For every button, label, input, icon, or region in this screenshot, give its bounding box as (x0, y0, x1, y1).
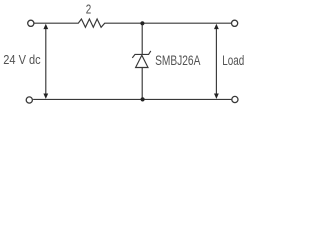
svg-text:SMBJ26A: SMBJ26A (155, 53, 201, 68)
svg-text:24 V dc: 24 V dc (3, 52, 41, 67)
svg-text:2: 2 (86, 1, 92, 16)
svg-text:Load: Load (222, 53, 244, 69)
